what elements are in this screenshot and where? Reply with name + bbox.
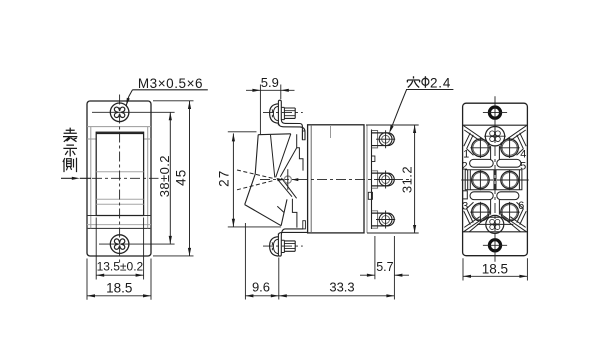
front view flange line top xyxy=(87,126,151,128)
front view horizontal centerline xyxy=(92,177,159,179)
bottom bracket plate xyxy=(278,234,281,257)
svg-text:18.5: 18.5 xyxy=(106,281,132,296)
front view side rib right xyxy=(147,127,149,229)
horizontal slot 2 left capsule xyxy=(470,192,493,200)
svg-text:2: 2 xyxy=(462,161,468,173)
lever right steps xyxy=(277,134,303,227)
svg-text:M3×0.5×6: M3×0.5×6 xyxy=(138,76,203,91)
bottom screw centerline xyxy=(263,245,303,247)
wing top-left xyxy=(464,126,490,156)
dim 38±0.2 xyxy=(169,112,171,244)
svg-text:9.6: 9.6 xyxy=(252,280,270,295)
dim 18.5 right extension lines xyxy=(463,258,527,280)
dim 18.5 right xyxy=(463,275,527,277)
label 表示側 arrow xyxy=(61,177,91,179)
terminal root line xyxy=(371,130,373,230)
divider bottom xyxy=(463,231,528,233)
bottom bracket bend outer xyxy=(278,232,307,235)
dim 31.2 extension lines xyxy=(366,125,419,233)
front view window rect xyxy=(96,132,143,215)
svg-text:4: 4 xyxy=(520,148,526,160)
wing top-right xyxy=(501,126,527,156)
svg-text:45: 45 xyxy=(174,168,189,185)
bottom bracket bend inner xyxy=(281,229,303,237)
svg-text:2.4: 2.4 xyxy=(430,76,451,91)
dim 31.2 xyxy=(414,125,416,233)
front view vertical centerline xyxy=(119,95,121,263)
bottom mounting screw M3 xyxy=(110,235,129,254)
dim 18.5 left extension lines xyxy=(87,259,151,300)
svg-text:18.5: 18.5 xyxy=(482,262,508,277)
left edge latch xyxy=(463,191,468,199)
dim 5.7 xyxy=(360,274,409,276)
top mounting screw M3 xyxy=(110,103,129,122)
center channel xyxy=(491,146,500,215)
dim 18.5 left xyxy=(87,295,151,297)
bottom trapezoid xyxy=(469,217,520,232)
top bracket hook xyxy=(302,131,305,140)
terminal 6 xyxy=(501,203,519,221)
lever V notch / arm upper edges xyxy=(271,134,297,178)
horizontal slot 1 left capsule xyxy=(470,159,494,167)
side body inner right line xyxy=(366,125,368,233)
neck details between tabs xyxy=(372,156,375,162)
bottom screw head xyxy=(270,237,279,256)
front view window stubs xyxy=(87,215,151,217)
bottom screw washer and shank xyxy=(281,240,284,252)
svg-text:6: 6 xyxy=(518,200,524,212)
svg-text:33.3: 33.3 xyxy=(329,280,354,295)
terminal 3 xyxy=(472,203,490,221)
horizontal slot 1 right capsule xyxy=(497,159,521,167)
top screw head xyxy=(270,104,279,123)
dim 13.5±0.2 extension lines xyxy=(96,218,143,280)
top mounting hole xyxy=(489,107,500,118)
bottom mounting hole xyxy=(489,240,500,251)
svg-text:5: 5 xyxy=(520,161,526,173)
dim 9.6 and 33.3 xyxy=(245,295,394,297)
dim 5.9 extension lines xyxy=(260,85,280,135)
horizontal slot 2 right capsule xyxy=(497,192,519,200)
svg-text:31.2: 31.2 xyxy=(400,166,415,193)
kanji 示 xyxy=(63,145,77,156)
front view side rib left xyxy=(90,127,92,229)
terminal 1 xyxy=(472,139,490,157)
bottom bracket hook xyxy=(303,221,306,229)
top screw centerline horizontal xyxy=(92,111,175,113)
top retaining screw xyxy=(485,127,504,146)
phi symbol xyxy=(422,78,429,85)
top bracket bend inner xyxy=(281,120,302,140)
front view margin lines xyxy=(87,138,151,140)
dim 5.9 xyxy=(246,89,295,91)
lever arm lower edges xyxy=(277,178,297,198)
bottom view outer body xyxy=(463,103,528,256)
side view main centerline xyxy=(260,178,409,180)
terminal tab 1 xyxy=(372,131,378,148)
bottom screw centerline horizontal xyxy=(99,243,175,245)
center vertical centerline xyxy=(494,127,496,231)
release lever outline xyxy=(245,134,291,226)
dim 27 extension lines xyxy=(228,132,281,227)
dim 45 xyxy=(189,101,191,256)
terminal tab 2 xyxy=(372,171,378,188)
svg-text:27: 27 xyxy=(216,170,231,187)
dim 13.5±0.2 xyxy=(96,274,143,276)
svg-text:5.7: 5.7 xyxy=(376,260,393,274)
terminal tab 3 xyxy=(372,211,378,228)
terminal 4 xyxy=(501,139,519,157)
divider top xyxy=(463,124,528,126)
terminal 5 xyxy=(501,171,519,189)
dim 5.7 extension lines xyxy=(375,236,395,300)
front view flange line bottom dark xyxy=(87,227,151,229)
top bracket bend outer xyxy=(278,123,305,140)
lever swing dashed lines xyxy=(237,170,275,190)
front view window top thick edge xyxy=(96,132,143,134)
side body inner left line xyxy=(310,125,312,233)
top screw centerline xyxy=(263,112,303,114)
middle row boxes xyxy=(465,170,494,190)
kanji 穴 xyxy=(407,76,419,87)
front view window gray lines xyxy=(96,172,143,205)
wing bottom-right xyxy=(501,202,527,232)
svg-text:13.5±0.2: 13.5±0.2 xyxy=(97,259,144,273)
front view outer body xyxy=(87,101,151,256)
bottom retaining screw xyxy=(486,215,504,233)
dim 9.6 / 33.3 extension lines xyxy=(245,223,278,300)
top screw washer and shank xyxy=(281,107,284,119)
svg-text:3: 3 xyxy=(462,201,468,213)
side body outline xyxy=(308,125,364,233)
svg-text:1: 1 xyxy=(463,148,469,160)
svg-text:5.9: 5.9 xyxy=(261,75,279,90)
kanji 側 xyxy=(63,158,77,172)
svg-text:38±0.2: 38±0.2 xyxy=(157,155,172,197)
kanji 表 xyxy=(63,128,77,142)
side body mold seam xyxy=(330,126,332,138)
front view flange line bottom gray xyxy=(87,224,151,226)
lever pivot circle xyxy=(284,176,291,183)
terminal 2 xyxy=(472,171,490,189)
dim 27 xyxy=(232,133,234,226)
dim 45 extension lines xyxy=(153,101,194,256)
top bracket plate xyxy=(278,100,281,125)
wing bottom-left xyxy=(464,202,490,232)
